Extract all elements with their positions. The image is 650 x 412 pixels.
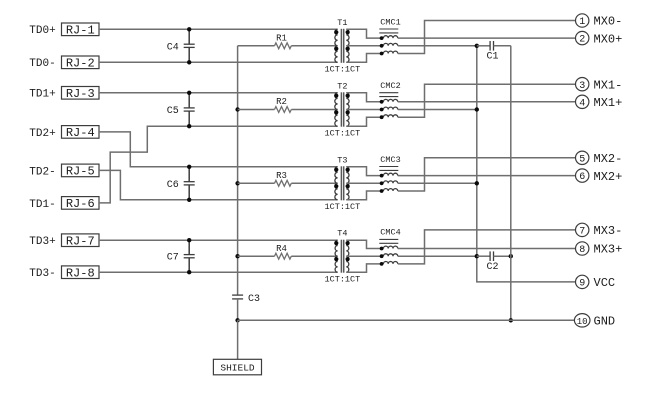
- wire T3 secondary center tap to CMC3 row2: [346, 182, 381, 184]
- wire CMC1 row1 to pin MX0+: [398, 37, 576, 39]
- svg-text:6: 6: [579, 172, 585, 183]
- wire RJ-8 to T4 primary bottom: [99, 271, 338, 273]
- CMC1 row2 polarity dot: [380, 44, 384, 48]
- capacitor C5: [167, 93, 195, 126]
- svg-text:T1: T1: [337, 18, 347, 28]
- T3 polarity dot secondary center: [346, 184, 350, 188]
- wire CMC1 row3 riser to pin MX0-: [398, 21, 576, 54]
- pin 7 MX3-: [576, 223, 623, 238]
- svg-text:MX2-: MX2-: [594, 152, 623, 166]
- svg-text:3: 3: [579, 81, 585, 92]
- svg-text:T3: T3: [337, 155, 347, 165]
- svg-text:R1: R1: [276, 34, 287, 44]
- CMC2 row1 polarity dot: [380, 100, 384, 104]
- svg-text:MX1-: MX1-: [594, 78, 623, 92]
- pin 3 MX1-: [576, 78, 623, 93]
- transformer T3: [325, 155, 361, 212]
- svg-text:MX1+: MX1+: [594, 96, 623, 110]
- junction C4 top: [187, 27, 191, 31]
- wire T1 secondary bottom to CMC1 row3: [346, 54, 381, 63]
- pin 9 VCC: [576, 275, 616, 290]
- T1 polarity dot primary center: [334, 47, 338, 51]
- wire CMC2 row2 to bus A: [398, 109, 477, 111]
- wire RJ-7 to T4 primary top: [99, 239, 338, 241]
- wire RJ-5 to T3 primary bottom (jog down): [99, 170, 338, 199]
- wire CMC4 row2 to bus A / C2: [398, 255, 477, 257]
- wire CMC3 row1 to pin MX2+: [398, 175, 576, 177]
- capacitor C3: [232, 294, 260, 320]
- pin 6 MX2+: [576, 169, 623, 184]
- svg-text:TD1-: TD1-: [29, 199, 55, 211]
- CMC2 row3 polarity dot: [380, 115, 384, 119]
- connector pin RJ-6: [62, 197, 100, 212]
- CMC4 row2 polarity dot: [380, 254, 384, 258]
- junction resistor bus at R3: [235, 181, 239, 185]
- svg-text:1CT:1CT: 1CT:1CT: [325, 65, 361, 75]
- connector pin RJ-5: [62, 164, 100, 179]
- junction bus A channel 1: [475, 44, 479, 48]
- svg-text:7: 7: [579, 227, 585, 238]
- svg-text:C7: C7: [167, 253, 179, 264]
- capacitor C1: [477, 41, 511, 62]
- svg-text:CMC2: CMC2: [380, 81, 400, 91]
- svg-text:CMC3: CMC3: [380, 155, 400, 165]
- CMC1 row3 polarity dot: [380, 52, 384, 56]
- pin 4 MX1+: [576, 95, 623, 110]
- wire T2 secondary bottom to CMC2 row3: [346, 117, 381, 126]
- common-mode choke CMC3: [379, 155, 400, 191]
- wire CMC2 row1 to pin MX1+: [398, 101, 576, 103]
- T1 polarity dot secondary center: [346, 47, 350, 51]
- svg-text:MX3-: MX3-: [594, 224, 623, 238]
- CMC2 row2 polarity dot: [380, 108, 384, 112]
- svg-text:MX0+: MX0+: [594, 32, 623, 46]
- connector pin RJ-8: [62, 266, 100, 281]
- svg-text:CMC4: CMC4: [380, 228, 400, 238]
- wire T4 secondary top to CMC4 row1: [346, 240, 381, 248]
- junction bus A channel 2: [475, 107, 479, 111]
- svg-text:C5: C5: [167, 106, 179, 117]
- wire T2 secondary top to CMC2 row1: [346, 93, 381, 102]
- svg-text:TD2+: TD2+: [29, 128, 55, 140]
- resistor R3: [238, 171, 338, 186]
- svg-text:RJ-8: RJ-8: [66, 267, 95, 281]
- pin 5 MX2-: [576, 151, 623, 166]
- T3 polarity dot primary top: [334, 168, 338, 172]
- wire T4 secondary center tap to CMC4 row2: [346, 255, 381, 257]
- junction resistor bus at R2: [235, 107, 239, 111]
- connector pin RJ-7: [62, 234, 100, 249]
- CMC4 row1 polarity dot: [380, 247, 384, 251]
- svg-text:RJ-7: RJ-7: [66, 235, 95, 249]
- wire CMC1 row2 to bus A / C1: [398, 45, 477, 47]
- CMC3 row3 polarity dot: [380, 189, 384, 193]
- svg-text:MX3+: MX3+: [594, 243, 623, 257]
- wire GND line: [238, 319, 576, 321]
- svg-text:MX0-: MX0-: [594, 15, 623, 29]
- svg-text:TD2-: TD2-: [29, 166, 55, 178]
- node SHIELD: [213, 359, 261, 375]
- T4 polarity dot secondary center: [346, 257, 350, 261]
- wire RJ-1 to T1 primary top: [99, 28, 338, 30]
- wire resistor bus vertical (R1-R4 to C3/SHIELD): [237, 46, 239, 295]
- common-mode choke CMC4: [379, 228, 400, 264]
- wire CMC3 row3 riser to pin MX2-: [398, 158, 576, 191]
- junction C5 bottom: [187, 124, 191, 128]
- common-mode choke CMC2: [379, 81, 400, 117]
- svg-text:C6: C6: [167, 180, 179, 191]
- svg-text:TD0-: TD0-: [29, 58, 55, 70]
- junction C2 right at bus B: [509, 254, 513, 258]
- svg-text:RJ-6: RJ-6: [66, 197, 95, 211]
- T2 polarity dot secondary top: [346, 94, 350, 98]
- junction resistor bus at R4: [235, 254, 239, 258]
- svg-text:4: 4: [579, 98, 585, 109]
- svg-text:RJ-3: RJ-3: [66, 87, 95, 101]
- wire shield stub: [237, 320, 239, 359]
- CMC3 row1 polarity dot: [380, 174, 384, 178]
- resistor R1: [238, 34, 338, 49]
- transformer T2: [325, 81, 361, 138]
- CMC1 row1 polarity dot: [380, 36, 384, 40]
- svg-text:5: 5: [579, 154, 585, 165]
- wire T4 secondary bottom to CMC4 row3: [346, 264, 381, 272]
- pin 10 GND: [574, 314, 615, 329]
- junction C4 bottom: [187, 60, 191, 64]
- svg-text:C4: C4: [167, 42, 179, 53]
- svg-text:R2: R2: [276, 97, 287, 107]
- pin 2 MX0+: [576, 31, 623, 46]
- wire center-tap bus A vertical to VCC: [477, 46, 576, 282]
- common-mode choke CMC1: [379, 17, 400, 53]
- wire CMC3 row2 to bus A: [398, 182, 477, 184]
- pin 8 MX3+: [576, 242, 623, 257]
- resistor R2: [238, 97, 338, 112]
- svg-text:RJ-2: RJ-2: [66, 57, 95, 71]
- svg-text:1CT:1CT: 1CT:1CT: [325, 129, 361, 139]
- junction bus B at GND line: [509, 318, 513, 322]
- resistor R4: [238, 244, 338, 259]
- svg-text:R3: R3: [276, 171, 287, 181]
- T2 polarity dot secondary center: [346, 110, 350, 114]
- svg-text:10: 10: [577, 317, 588, 327]
- transformer T1: [325, 18, 361, 75]
- junction C6 bottom: [187, 198, 191, 202]
- transformer T4: [325, 229, 361, 285]
- svg-text:1CT:1CT: 1CT:1CT: [325, 275, 361, 285]
- junction C5 top: [187, 91, 191, 95]
- svg-text:C1: C1: [486, 51, 498, 62]
- svg-text:TD3+: TD3+: [29, 236, 55, 248]
- connector pin RJ-4: [62, 126, 100, 141]
- junction C6 top: [187, 165, 191, 169]
- svg-text:1: 1: [579, 17, 585, 28]
- wire CMC4 row1 to pin MX3+: [398, 248, 576, 250]
- junction C7 bottom: [187, 270, 191, 274]
- wire RJ-6 to T2 primary bottom (double jog up): [99, 126, 338, 203]
- wire T2 secondary center tap to CMC2 row2: [346, 109, 381, 111]
- wire T1 secondary center tap to CMC1 row2: [346, 45, 381, 47]
- connector pin RJ-3: [62, 87, 100, 102]
- junction C7 top: [187, 238, 191, 242]
- T3 polarity dot primary center: [334, 184, 338, 188]
- wire T3 secondary bottom to CMC3 row3: [346, 191, 381, 200]
- svg-text:T2: T2: [337, 81, 347, 91]
- svg-text:TD0+: TD0+: [29, 25, 55, 37]
- junction C3 bottom at GND line: [235, 318, 239, 322]
- svg-text:1CT:1CT: 1CT:1CT: [325, 202, 361, 212]
- svg-text:CMC1: CMC1: [380, 17, 400, 27]
- T2 polarity dot primary top: [334, 94, 338, 98]
- junction bus A channel 3: [475, 181, 479, 185]
- pin 1 MX0-: [576, 14, 623, 29]
- svg-text:TD1+: TD1+: [29, 89, 55, 101]
- wire RJ-4 to T3 primary top (jog down): [99, 132, 338, 167]
- svg-text:RJ-4: RJ-4: [66, 126, 95, 140]
- T4 polarity dot primary top: [334, 241, 338, 245]
- junction bus A channel 4: [475, 254, 479, 258]
- svg-text:RJ-1: RJ-1: [66, 24, 95, 38]
- svg-text:R4: R4: [276, 244, 287, 254]
- svg-text:C3: C3: [248, 294, 260, 305]
- svg-text:RJ-5: RJ-5: [66, 165, 95, 179]
- capacitor C2: [477, 251, 511, 272]
- svg-text:TD3-: TD3-: [29, 268, 55, 280]
- svg-text:VCC: VCC: [594, 276, 616, 290]
- T1 polarity dot secondary top: [346, 30, 350, 34]
- wire RJ-2 to T1 primary bottom: [99, 61, 338, 63]
- T1 polarity dot primary top: [334, 30, 338, 34]
- svg-text:GND: GND: [594, 315, 616, 329]
- svg-text:C2: C2: [486, 262, 498, 273]
- wire T3 secondary top to CMC3 row1: [346, 167, 381, 176]
- wire T1 secondary top to CMC1 row1: [346, 29, 381, 38]
- wire CMC4 row3 riser to pin MX3-: [398, 230, 576, 264]
- svg-text:8: 8: [579, 245, 585, 256]
- T3 polarity dot secondary top: [346, 168, 350, 172]
- svg-text:SHIELD: SHIELD: [220, 363, 255, 374]
- CMC4 row3 polarity dot: [380, 262, 384, 266]
- svg-text:2: 2: [579, 35, 585, 46]
- CMC3 row2 polarity dot: [380, 181, 384, 185]
- connector pin RJ-1: [62, 23, 100, 38]
- capacitor C7: [167, 240, 195, 272]
- wire bus B vertical C1 to GND line: [510, 46, 512, 321]
- wire CMC2 row3 riser to pin MX1-: [398, 84, 576, 117]
- svg-text:T4: T4: [337, 229, 347, 239]
- capacitor C6: [167, 167, 195, 200]
- svg-text:9: 9: [579, 279, 585, 290]
- wire RJ-3 to T2 primary top: [99, 92, 338, 94]
- T4 polarity dot primary center: [334, 257, 338, 261]
- svg-text:MX2+: MX2+: [594, 170, 623, 184]
- connector pin RJ-2: [62, 56, 100, 71]
- T2 polarity dot primary center: [334, 110, 338, 114]
- capacitor C4: [167, 29, 195, 62]
- T4 polarity dot secondary top: [346, 241, 350, 245]
